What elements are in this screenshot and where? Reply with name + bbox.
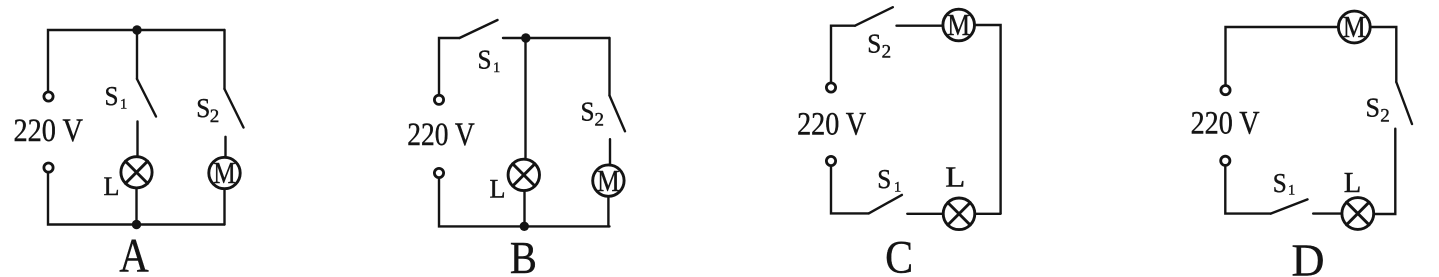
terminal: D source bottom (1221, 156, 1230, 165)
svg-text:S: S (478, 44, 492, 75)
wire: C top rail motor to corner + right vertical (976, 25, 1001, 213)
wire: A middle branch lower contact (136, 122, 138, 156)
wire: B left lower + bottom rail (439, 179, 610, 227)
wire: C left lower + bottom rail to switch (831, 167, 869, 214)
wire: C top rail switch to motor (897, 25, 942, 27)
motor M (B) (593, 165, 624, 196)
lamp L (B) (508, 159, 539, 190)
wire: D bottom rail switch to lamp (1313, 212, 1341, 214)
switch S2 (D) blade (1396, 82, 1412, 124)
motor M (A) (209, 157, 240, 188)
svg-text:A: A (119, 230, 149, 277)
svg-text:S: S (581, 96, 595, 127)
node: B bottom junction dot (520, 222, 529, 231)
svg-text:S: S (867, 28, 881, 59)
svg-text:220 V: 220 V (1191, 105, 1260, 141)
wire: A top rail (48, 30, 225, 91)
wire: B right branch lower contact (609, 139, 611, 164)
wire: B middle branch bottom (523, 192, 525, 227)
svg-text:M: M (1343, 10, 1366, 44)
wire: D left lower + bottom rail to switch (1225, 167, 1270, 214)
svg-text:L: L (945, 162, 965, 194)
switch S2 (A) blade (225, 89, 244, 128)
svg-text:M: M (597, 164, 620, 198)
wire: D left vertical upper + top rail to motor (1226, 27, 1338, 84)
wire: A middle branch bottom (135, 189, 137, 225)
terminal: B source bottom (434, 168, 443, 177)
svg-text:1: 1 (120, 97, 127, 113)
svg-text:L: L (490, 175, 506, 204)
terminal: C source bottom (826, 156, 835, 165)
svg-text:B: B (510, 233, 537, 277)
wire: A right branch upper (223, 30, 225, 89)
svg-text:S: S (1366, 92, 1381, 123)
svg-text:2: 2 (210, 106, 220, 127)
wire: D right branch lower contact (1375, 129, 1396, 214)
svg-text:C: C (885, 231, 913, 277)
wire: B middle branch upper (524, 38, 526, 158)
svg-text:L: L (104, 172, 120, 201)
terminal: B source top (434, 95, 443, 104)
switch S2 (C) blade (855, 7, 893, 26)
switch S2 (B) blade (610, 96, 626, 132)
svg-text:D: D (1292, 236, 1325, 277)
wire: B top rail right of switch (503, 37, 610, 39)
svg-text:S: S (1273, 167, 1287, 198)
wire: A right branch lower contact (224, 137, 226, 157)
wire: A middle branch upper (136, 30, 138, 79)
svg-text:1: 1 (1288, 183, 1295, 199)
switch S1 (D) blade (1271, 199, 1308, 213)
svg-text:1: 1 (493, 60, 500, 76)
wire: D top rail motor to corner + right vertical to switch (1371, 27, 1396, 82)
motor M (D) (1338, 11, 1370, 43)
svg-text:L: L (1344, 167, 1362, 199)
wire: C bottom rail lamp to corner (976, 213, 1001, 215)
lamp L (D) (1342, 198, 1374, 230)
svg-text:220 V: 220 V (407, 117, 475, 153)
wire: A left lower + bottom rail (48, 174, 225, 225)
svg-text:M: M (947, 8, 970, 42)
wire: B left vertical upper (439, 38, 460, 94)
svg-text:S: S (877, 163, 891, 194)
switch S1 (C) blade (869, 195, 902, 214)
lamp L (C) (943, 198, 975, 230)
svg-text:2: 2 (882, 41, 892, 62)
svg-text:S: S (196, 92, 210, 123)
terminal: A source top (44, 92, 53, 101)
terminal: C source top (826, 83, 835, 92)
svg-text:S: S (105, 80, 119, 111)
svg-text:M: M (213, 156, 236, 190)
switch S1 (B) blade (460, 20, 498, 38)
svg-text:1: 1 (894, 180, 901, 196)
lamp L (A) (121, 157, 152, 188)
node: B top junction dot (521, 33, 530, 42)
wire: C left vertical upper + top rail to switch (831, 26, 855, 82)
wire: B right branch upper (608, 38, 610, 96)
svg-text:2: 2 (595, 110, 605, 131)
svg-text:220 V: 220 V (13, 113, 83, 149)
svg-text:2: 2 (1380, 106, 1390, 127)
node: A top junction dot (132, 25, 141, 34)
svg-text:220 V: 220 V (797, 107, 866, 143)
wire: C bottom rail switch to lamp (907, 213, 942, 215)
motor M (C) (943, 9, 975, 41)
switch S1 (A) blade (137, 79, 156, 117)
terminal: D source top (1221, 86, 1230, 95)
wire: A right branch bottom (223, 190, 225, 225)
wire: B right branch bottom (607, 197, 609, 226)
node: A bottom junction dot (132, 220, 141, 229)
terminal: A source bottom (44, 163, 53, 172)
